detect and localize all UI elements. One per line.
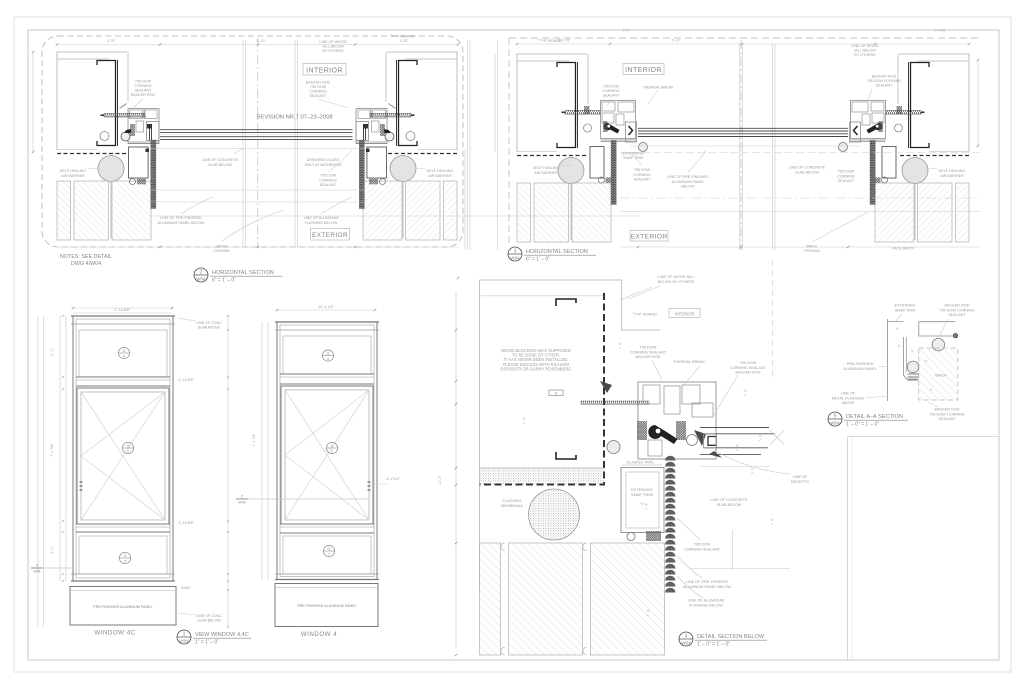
air barrier circle [558,158,584,184]
leader lines B [607,99,611,106]
svg-text:6 7/8”: 6 7/8” [107,39,115,43]
svg-text:GLAZING TAPE: GLAZING TAPE [626,461,654,465]
section marker 2/W04 [236,492,248,506]
main sash [281,386,373,524]
svg-text:SELF HEALING: SELF HEALING [533,166,560,170]
bottom rails [850,139,886,141]
svg-text:SILL BELOW: SILL BELOW [854,49,876,53]
svg-text:5: 5 [834,414,837,420]
svg-text:AIR BARRIER: AIR BARRIER [428,174,452,178]
svg-text:REVISION NR.7 07–23–2008: REVISION NR.7 07–23–2008 [256,115,332,121]
svg-text:SNAP TRIM: SNAP TRIM [895,308,916,312]
svg-text:LINE OF CONCRETE: LINE OF CONCRETE [710,498,748,502]
stud bracket bottom [556,452,576,459]
backer rod circle [839,143,848,152]
svg-text:RECEPTO: RECEPTO [791,480,809,484]
svg-text:½: ½ [744,389,747,393]
svg-text:795 DOW CORNING: 795 DOW CORNING [867,79,902,83]
svg-text:1’ – 0” = 1’ – 0”: 1’ – 0” = 1’ – 0” [697,642,730,648]
sealant circles [380,179,386,185]
svg-text:CORNING SEALANT: CORNING SEALANT [730,366,767,370]
self-healing air barrier dashed [898,155,969,157]
transom panel [283,336,371,374]
sealant flag black [867,123,883,134]
svg-text:BACKER ROD: BACKER ROD [306,81,331,85]
thermal break neck [136,121,144,132]
svg-text:795 DOW: 795 DOW [640,346,657,350]
svg-text:SEALANT: SEALANT [948,313,966,317]
svg-text:½: ½ [619,342,622,346]
svg-text:BACKER ROD: BACKER ROD [735,371,760,375]
svg-text:LINE OF CONC: LINE OF CONC [196,321,222,325]
svg-text:1: 1 [183,632,186,638]
svg-text:HORIZONTAL SECTION: HORIZONTAL SECTION [212,270,274,276]
flashing wedge [709,451,722,458]
air barrier circle [390,156,416,182]
svg-text:SELF HEALING: SELF HEALING [939,169,966,173]
centerline [740,40,742,250]
roll gasket circle [385,132,394,141]
wall gypsum outline [387,52,457,150]
thermal break neck [616,114,624,125]
svg-text:PRE-FINISHED ALUMINUM PANEL: PRE-FINISHED ALUMINUM PANEL [297,604,356,608]
svg-text:WINDOW 4C: WINDOW 4C [94,630,135,637]
stud bracket top [556,299,576,306]
sealant circles [882,177,888,183]
glazing pocket [147,122,159,141]
sill cap [71,573,175,575]
wall gypsum outline [899,54,969,152]
left wall/jamb [517,54,611,242]
thermal break neck [862,114,870,125]
right wall/jamb [363,52,457,240]
svg-text:SEALANT: SEALANT [634,178,652,182]
svg-text:LINE OF CONCRETE: LINE OF CONCRETE [789,166,826,170]
svg-text:W04: W04 [196,277,206,282]
svg-text:ALUMINUM PANEL: ALUMINUM PANEL [843,367,876,371]
svg-text:PRE-FINISHED: PRE-FINISHED [847,362,874,366]
title 5/W04 detail A-A section [828,412,908,428]
backer rod circle [639,143,648,152]
roll gasket circle [121,132,130,141]
svg-text:INTERIOR: INTERIOR [625,67,662,74]
svg-text:7’–1 3/4”: 7’–1 3/4” [50,443,54,456]
svg-text:BACKER ROD: BACKER ROD [872,75,897,79]
INTERIOR label [303,64,346,76]
snap trim profile [887,319,889,401]
svg-text:EXTERIOR: EXTERIOR [312,232,348,239]
right mullion [356,104,415,185]
svg-text:BRICK: BRICK [935,374,947,378]
glazing gasket [879,121,884,132]
svg-text:ALUMINUM PANEL: ALUMINUM PANEL [672,180,705,184]
receptor box [704,434,717,448]
svg-text:8.5/8”: 8.5/8” [182,586,192,590]
svg-text:SEALANT: SEALANT [838,179,856,183]
svg-text:CORNING: CORNING [602,89,620,93]
svg-text:SLAB BELOW: SLAB BELOW [717,503,742,507]
backer rod circles [607,441,620,454]
bottom rails [356,141,387,143]
svg-text:½: ½ [641,502,644,506]
svg-text:SNAP TRIM: SNAP TRIM [631,492,653,497]
svg-text:CORNING: CORNING [633,173,651,177]
break marks [770,431,784,445]
bottom rails [128,141,159,143]
svg-text:CORNING: CORNING [134,84,152,88]
sill lines [630,145,860,147]
svg-text:W04: W04 [830,421,840,426]
joint gasket circle [406,132,415,141]
wall outline [480,280,660,590]
glass unit lines [160,129,353,131]
svg-text:BY OTHERS: BY OTHERS [854,53,876,57]
thermal break neck [372,121,380,132]
svg-text:BRICK: BRICK [217,245,228,249]
svg-text:CORNING: CORNING [837,174,855,178]
svg-text:795 DOW: 795 DOW [694,543,711,547]
transom bar [280,373,374,375]
svg-text:½: ½ [647,609,650,613]
blank notes panel bottom-right [847,437,849,661]
svg-text:DETAIL A–A SECTION: DETAIL A–A SECTION [846,414,903,420]
svg-text:½: ½ [523,417,526,421]
svg-text:LINE OF PRE-FINISHED: LINE OF PRE-FINISHED [686,580,729,584]
svg-text:2’–0”: 2’–0” [622,29,629,33]
brick hatch below wall [517,183,531,242]
setting block dark [147,124,152,129]
head cap [71,315,175,317]
title 3/W04 horizontal section [508,247,596,263]
svg-text:EXTERIOR: EXTERIOR [630,234,667,241]
svg-text:2: 2 [200,270,203,276]
svg-text:10’–1 1/2”: 10’–1 1/2” [318,305,334,309]
hinge marks [368,482,371,490]
svg-text:NOTES: SEE DETAIL: NOTES: SEE DETAIL [60,254,112,260]
svg-text:BELOW BY OTHERS: BELOW BY OTHERS [658,280,695,284]
sealant joint diagonal [389,104,396,109]
glazing gasket [603,121,608,132]
svg-text:CORNING SEALANT: CORNING SEALANT [684,547,721,551]
dark wedge right [694,430,706,446]
svg-text:SEALANT: SEALANT [135,89,153,93]
svg-text:THERMAL BREAK: THERMAL BREAK [673,360,705,364]
snap trim box [367,147,387,178]
svg-text:WINDOW 4: WINDOW 4 [301,631,337,638]
joint notches [501,543,505,655]
joint gasket circle [895,124,903,132]
svg-text:6” = 1’ – 0”: 6” = 1’ – 0” [212,278,236,284]
sealant joint diagonal [120,104,127,109]
svg-text:1’–10 5/8”: 1’–10 5/8” [178,378,194,382]
extended snap trim box [621,468,664,533]
window outer frame [73,316,173,581]
mullion extrusion large [638,382,716,459]
mullion frame body [128,109,159,144]
leader lines A [133,99,143,108]
svg-text:INTERIOR: INTERIOR [306,67,343,74]
svg-text:5’–10”: 5’–10” [672,39,681,43]
svg-text:SEALANT: SEALANT [310,94,328,98]
metal stud C-channel [557,63,576,148]
snap trim box [882,147,896,179]
snap trim box [590,147,604,179]
svg-text:4’–2 1/2”: 4’–2 1/2” [386,477,400,481]
sealant flag black [604,123,620,134]
svg-text:795 DOW: 795 DOW [603,85,620,89]
svg-text:7’–1 3/4”: 7’–1 3/4” [252,433,256,446]
svg-text:LINE OF PRE-FINISHED: LINE OF PRE-FINISHED [667,175,709,179]
svg-text:G: G [330,443,333,448]
svg-text:2’–10.5/8”: 2’–10.5/8” [178,521,194,525]
sealant strip right B [870,141,875,205]
svg-text:½: ½ [751,467,754,471]
svg-text:½: ½ [930,388,933,392]
svg-text:4: 4 [685,634,688,640]
transom panel [79,330,167,377]
svg-text:2’–0 7/8”: 2’–0 7/8” [934,29,946,33]
operation diagonals [285,390,369,520]
svg-text:ARMORED GLASS: ARMORED GLASS [307,158,340,162]
sealant crescent dark [125,129,132,133]
svg-text:OPENING: OPENING [804,249,820,253]
svg-text:CORNING: CORNING [319,178,337,182]
air barrier circle [98,156,124,182]
gasket blocks [637,421,647,440]
window 4 elevation [275,322,379,638]
aluminum panel base [275,584,378,627]
glazing pocket [850,122,861,142]
sealant strip left B [611,141,616,205]
svg-text:½: ½ [896,327,899,331]
rope sealant strip vertical [665,456,676,461]
svg-text:BACKER ROD: BACKER ROD [944,304,969,308]
window 4C elevation [70,316,176,637]
glass to right [700,427,769,429]
svg-text:1” = 1’ – 0”: 1” = 1’ – 0” [195,640,219,646]
dim line left [455,292,457,648]
svg-text:W04: W04 [34,570,41,574]
svg-text:SLAB BELOW: SLAB BELOW [197,619,221,623]
glass unit lines [638,127,848,129]
brick below hatch [480,543,665,655]
svg-text:METAL FLASHING: METAL FLASHING [832,396,864,400]
svg-text:CORNING: CORNING [309,90,327,94]
svg-text:G: G [327,546,330,551]
svg-text:BACKER ROD: BACKER ROD [934,408,959,412]
joint gasket circle [100,132,109,141]
flashing membrane circle [529,489,580,540]
B mark [549,390,563,396]
dim lines [517,43,969,45]
svg-text:W04: W04 [510,256,520,261]
svg-text:BACKER ROD: BACKER ROD [131,93,156,97]
svg-text:795 DOW CORNING: 795 DOW CORNING [929,412,965,416]
svg-text:PRE-FINISHED ALUMINUM PANEL: PRE-FINISHED ALUMINUM PANEL [93,605,152,609]
transom bar [76,376,170,378]
operation diagonals [81,392,165,520]
svg-text:ABOVE: ABOVE [841,401,855,405]
svg-text:OPENING: OPENING [214,249,230,253]
vertical leader between blocks [772,260,774,381]
bottom rails [601,139,637,141]
svg-text:795 DOW CORNING: 795 DOW CORNING [939,308,975,312]
self-healing air barrier dashed [57,153,128,155]
svg-text:LINE OF WOOD: LINE OF WOOD [851,44,879,48]
wall gypsum outline [57,52,127,150]
anchor rod [565,111,600,115]
hinge marks [80,482,83,490]
svg-text:SLAB ABOVE: SLAB ABOVE [198,326,221,330]
svg-text:DETAIL SECTION BELOW: DETAIL SECTION BELOW [697,634,765,640]
svg-text:LINE OF CONC: LINE OF CONC [196,614,222,618]
metal stud C-channel [399,61,418,146]
svg-text:INTERIOR: INTERIOR [674,312,694,317]
svg-text:LINE OF ALUMINUM: LINE OF ALUMINUM [304,216,339,220]
mullion frame body [356,109,387,144]
right mullion [839,101,925,184]
thick dashed blocking boundary [480,293,604,485]
svg-text:W04: W04 [179,639,189,644]
sealant flag black (detail) [648,425,677,444]
svg-text:BY OTHERS: BY OTHERS [322,49,344,53]
sealant strip right [359,140,364,209]
svg-text:2’–0”: 2’–0” [50,546,54,554]
backer rods at snap trim [627,533,635,541]
svg-text:½: ½ [736,444,739,448]
svg-text:LINE OF PRE-FINISHED: LINE OF PRE-FINISHED [160,216,202,220]
svg-text:½: ½ [715,444,718,448]
head cap [275,321,379,323]
sealant wedge dark [600,381,612,393]
anchor rod [104,114,145,118]
left wall/jamb [57,52,151,240]
joint gasket circle [584,124,592,132]
sealant circles [130,179,136,185]
svg-text:AIR BARRIER: AIR BARRIER [940,174,964,178]
bottom panel [283,536,371,574]
anchor rod into blocking [581,401,649,404]
metal stud C-channel [97,61,116,146]
svg-text:ALUMINUM PANEL BELOW: ALUMINUM PANEL BELOW [683,585,732,589]
svg-text:795 DOW: 795 DOW [634,168,651,172]
svg-text:ALUMINUM PANEL BELOW: ALUMINUM PANEL BELOW [158,221,205,225]
svg-text:6” = 1’ – 0”: 6” = 1’ – 0” [526,257,550,263]
section marker left [31,561,43,575]
svg-text:W04: W04 [681,641,691,646]
svg-text:SELF HEALING: SELF HEALING [60,169,87,173]
svg-text:FLASHING BELOW: FLASHING BELOW [305,221,338,225]
left mullion [100,104,159,185]
svg-text:½: ½ [771,518,774,522]
svg-text:⌜TYP. BOARD: ⌜TYP. BOARD [390,34,415,39]
svg-text:SEALANT: SEALANT [320,183,338,187]
brick hatch E [919,348,958,400]
boundary dashes [509,37,980,39]
svg-text:2’–0”: 2’–0” [50,348,54,356]
svg-text:LINE OF ALUMINUM: LINE OF ALUMINUM [688,599,724,603]
bottom transom bar [76,523,170,525]
sill lines below glass [150,148,365,150]
svg-text:795 DOW: 795 DOW [320,174,337,178]
svg-text:795 DOW: 795 DOW [838,170,855,174]
INTERIOR label [623,64,664,75]
svg-text:SLAB BELOW: SLAB BELOW [795,170,819,174]
svg-text:½: ½ [759,434,762,438]
svg-text:795 DOW: 795 DOW [310,85,327,89]
svg-text:VIEW WINDOW 4,4C: VIEW WINDOW 4,4C [195,632,249,638]
left mullion [562,101,648,184]
svg-text:THERMAL BREAK: THERMAL BREAK [642,86,674,90]
svg-text:SNAP TRIM: SNAP TRIM [623,156,643,160]
svg-text:795 DOW: 795 DOW [135,80,152,84]
svg-text:AIR BARRIER: AIR BARRIER [61,174,85,178]
svg-text:MEMBRANA: MEMBRANA [501,504,523,508]
svg-text:⌜TYP. BOARD: ⌜TYP. BOARD [632,312,657,317]
air barrier circle [902,158,928,184]
EXTERIOR label [630,231,668,242]
bottom transom bar [280,523,374,525]
top flashing [919,322,955,336]
dim lines [57,44,458,46]
svg-text:BRICK: BRICK [807,245,818,249]
svg-text:ONLY AT BATHROOM: ONLY AT BATHROOM [305,163,342,167]
svg-text:795 DOW: 795 DOW [740,361,757,365]
sill cap [275,573,379,575]
svg-text:G: G [123,553,126,558]
mullion frame body [851,101,886,139]
anchor rod [886,111,921,115]
title 2/W04 horizontal section [194,268,282,284]
right wall/jamb [875,54,969,242]
anchor rod [370,114,411,118]
svg-text:SLAB BELOW: SLAB BELOW [208,163,232,167]
svg-text:10’–5”: 10’–5” [438,475,442,484]
svg-text:W04: W04 [239,501,246,505]
svg-text:BELOW: BELOW [681,185,695,189]
svg-text:SEALANT: SEALANT [876,84,894,88]
metal stud C-channel [911,63,930,148]
concrete stipple band [480,468,604,484]
svg-text:FLASHING BELOW: FLASHING BELOW [689,603,723,607]
svg-text:AIR BARRIER: AIR BARRIER [534,171,558,175]
glazing gasket [130,124,135,136]
EXTERIOR label [311,229,350,241]
leader lines E [896,314,902,321]
glazing pocket [626,122,637,142]
title 4/W04 detail section below [679,632,767,648]
svg-text:FLASHING: FLASHING [503,499,522,503]
svg-text:LINE OF WOOD: LINE OF WOOD [319,40,347,44]
svg-text:SELF HEALING: SELF HEALING [427,169,454,173]
svg-text:½: ½ [645,503,648,507]
leader curves [717,452,790,474]
wall gypsum outline [517,54,587,152]
svg-text:FACE BRICK: FACE BRICK [892,247,914,251]
dim lines window 4 [261,322,263,580]
self-healing air barrier dashed [517,155,588,157]
setting block dark [363,124,368,129]
svg-text:½: ½ [911,349,914,353]
mullion frame body [601,101,636,139]
bottom panel [79,536,167,574]
snap trim box [129,147,149,178]
svg-text:G: G [126,443,129,448]
svg-text:⌜TYP. BOARD: ⌜TYP. BOARD [537,38,562,43]
backer rod top [932,338,944,350]
title 1/W04 view window [177,630,251,646]
svg-text:2’–10 5/8”: 2’–10 5/8” [114,308,130,312]
